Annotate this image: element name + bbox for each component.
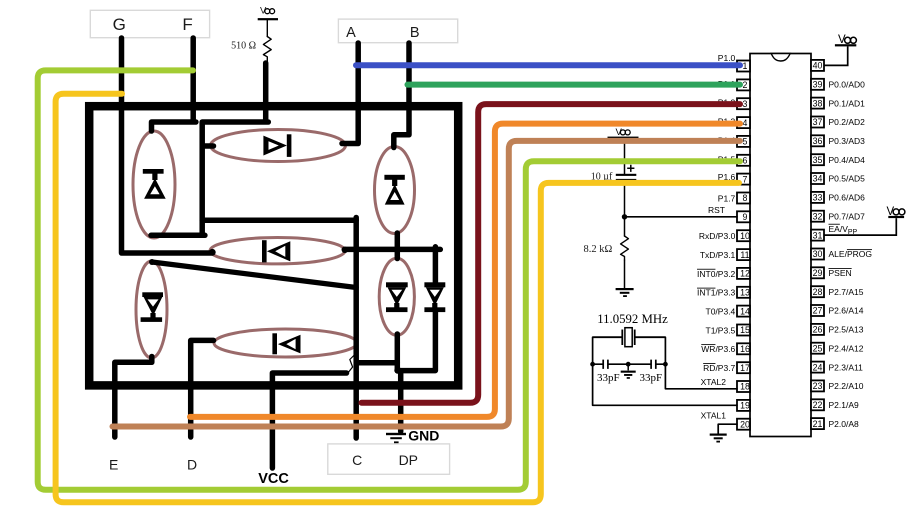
pin 10 box [737, 230, 750, 241]
pin 5 box [737, 136, 750, 147]
svg-text:T0/P3.4: T0/P3.4 [706, 307, 736, 317]
svg-text:GND: GND [408, 427, 439, 443]
svg-text:22: 22 [813, 400, 823, 410]
capacitor C3 10uF polarized [616, 165, 637, 182]
power VCC at pin 31 EA/Vpp [824, 206, 905, 235]
wire segment E bottom to node E [115, 357, 152, 438]
svg-text:P0.3/AD3: P0.3/AD3 [829, 136, 866, 146]
svg-text:P0.1/AD1: P0.1/AD1 [829, 98, 866, 108]
pin 36 box [811, 135, 824, 146]
LED segment B ellipse [375, 147, 415, 234]
wire rail to segment F bottom [151, 233, 205, 239]
svg-text:24: 24 [813, 362, 823, 372]
pin 22 box [811, 399, 824, 410]
junction RST node [622, 214, 627, 219]
pin 12 box [737, 268, 750, 279]
svg-text:31: 31 [813, 230, 823, 240]
wire blue node A to P1.0 pin 1 [356, 62, 740, 68]
wire segment G right to DP top rail [344, 247, 440, 253]
wire RST node to pin 9 [625, 216, 738, 218]
svg-text:4: 4 [743, 118, 748, 128]
svg-text:P2.1/A9: P2.1/A9 [829, 400, 860, 410]
wire anode rail from resistor R1 into display [202, 63, 268, 235]
svg-text:T1/P3.5: T1/P3.5 [706, 325, 736, 335]
svg-text:P1.7: P1.7 [718, 193, 736, 203]
svg-text:25: 25 [813, 343, 823, 353]
svg-text:23: 23 [813, 381, 823, 391]
wire crystal left to XTAL1 pin 19 [593, 337, 737, 405]
junction segment G right terminal [342, 247, 348, 253]
svg-text:P2.7/A15: P2.7/A15 [829, 287, 864, 297]
svg-text:35: 35 [813, 155, 823, 165]
LED segment A ellipse [211, 130, 346, 162]
node label box A B [338, 19, 457, 43]
svg-text:33: 33 [813, 193, 823, 203]
pin 25 box [811, 343, 824, 354]
svg-text:INT0/P3.2: INT0/P3.2 [697, 269, 736, 279]
pin 6 box [737, 155, 750, 166]
svg-text:38: 38 [813, 98, 823, 108]
pin 7 box [737, 174, 750, 185]
ground symbol between C1 C2 [621, 364, 636, 379]
svg-text:V: V [260, 6, 267, 17]
pin 3 box [737, 98, 750, 109]
pin 24 box [811, 362, 824, 373]
svg-text:D: D [187, 457, 197, 473]
svg-text:A: A [346, 25, 356, 41]
power VCC supply top [258, 6, 278, 21]
svg-text:VCC: VCC [258, 471, 289, 487]
svg-text:19: 19 [740, 401, 750, 411]
power VCC at RST circuit [608, 127, 639, 139]
svg-text:18: 18 [740, 382, 750, 392]
pin 4 box [737, 117, 750, 128]
svg-text:P0.6/AD6: P0.6/AD6 [829, 193, 866, 203]
wire yellow-green node F to P1.5 pin 6 [38, 70, 740, 489]
pin 14 box [737, 306, 750, 317]
wire node F to segment F top [152, 38, 196, 131]
node label box G F [90, 10, 209, 37]
svg-text:10: 10 [740, 231, 750, 241]
svg-text:WR/P3.6: WR/P3.6 [701, 344, 735, 354]
wire VCC column [272, 373, 346, 468]
node label box C DP [328, 444, 450, 474]
LED segment F ellipse [133, 131, 175, 238]
svg-text:INT1/P3.3: INT1/P3.3 [697, 288, 736, 298]
svg-text:P2.0/A8: P2.0/A8 [829, 419, 860, 429]
diode LED D symbol [272, 333, 300, 354]
pin 11 box [737, 249, 750, 260]
pin 29 box [811, 267, 824, 278]
7-segment display U2 outline [89, 106, 458, 385]
pin 40 box [811, 60, 824, 71]
wire node B to segment B top [394, 43, 409, 148]
svg-text:16: 16 [740, 344, 750, 354]
wire segment D left to node D [191, 340, 214, 437]
pin 21 box [811, 418, 824, 429]
svg-text:XTAL2: XTAL2 [701, 377, 727, 387]
microcontroller U1 body (8051) [750, 54, 811, 437]
pin 30 box [811, 249, 824, 260]
svg-text:2: 2 [743, 80, 748, 90]
pin 31 box [811, 230, 824, 241]
svg-text:37: 37 [813, 117, 823, 127]
svg-text:36: 36 [813, 136, 823, 146]
pin 19 box [737, 400, 750, 411]
junction crystal right node [663, 362, 668, 367]
svg-text:C: C [352, 452, 362, 468]
ground symbol at DP [386, 433, 406, 443]
svg-text:14: 14 [740, 306, 750, 316]
wire node A to segment A right [342, 43, 358, 144]
wire yellow node G to P1.6 pin 7 [56, 94, 739, 503]
resistor R2 zigzag 8.2k [621, 236, 629, 260]
svg-text:B: B [410, 25, 420, 41]
pin 23 box [811, 380, 824, 391]
crystal Y1 [593, 328, 666, 347]
pin 13 box [737, 287, 750, 298]
LED segment E ellipse [136, 261, 167, 358]
thin wire segment D right to VCC column [347, 343, 357, 374]
svg-text:34: 34 [813, 174, 823, 184]
pin 39 box [811, 79, 824, 90]
resistor R1 zigzag 510 ohm [263, 37, 271, 64]
wire DP diode bottom to DP column [397, 312, 435, 371]
junction segment E top terminal [149, 259, 155, 265]
capacitor C1 33pF [593, 360, 629, 369]
wire DP diode top stub [433, 247, 439, 283]
wire brown node E to P1.4 pin 5 [113, 141, 741, 427]
svg-text:11: 11 [740, 250, 749, 260]
wire mid column / node C column [353, 218, 359, 439]
svg-text:XTAL1: XTAL1 [701, 411, 727, 421]
svg-text:P2.5/A13: P2.5/A13 [829, 325, 864, 335]
svg-text:3: 3 [743, 99, 748, 109]
svg-text:13: 13 [740, 288, 750, 298]
pin 16 box [737, 343, 750, 354]
pin 34 box [811, 173, 824, 184]
svg-text:17: 17 [740, 363, 750, 373]
svg-text:P2.6/A14: P2.6/A14 [829, 306, 864, 316]
svg-text:F: F [182, 15, 192, 34]
svg-text:V: V [616, 127, 623, 138]
svg-text:11.0592 MHz: 11.0592 MHz [597, 312, 668, 326]
pin 28 box [811, 286, 824, 297]
svg-text:8: 8 [743, 193, 748, 203]
svg-text:33pF: 33pF [597, 372, 620, 384]
pin 15 box [737, 325, 750, 336]
wire crystal right to XTAL2 pin 18 [665, 337, 737, 389]
wire orange node D to P1.3 pin 4 [190, 124, 740, 417]
svg-text:20: 20 [740, 419, 750, 429]
svg-text:40: 40 [813, 61, 823, 71]
pin 8 box [737, 193, 750, 204]
pin 32 box [811, 211, 824, 222]
svg-text:P0.4/AD4: P0.4/AD4 [829, 155, 866, 165]
svg-text:RxD/P3.0: RxD/P3.0 [699, 231, 736, 241]
diode LED B symbol [384, 175, 404, 205]
junction capacitor center node [626, 362, 631, 367]
wire green node B to P1.1 pin 2 [408, 82, 741, 88]
svg-text:12: 12 [740, 269, 750, 279]
pin 33 box [811, 192, 824, 203]
svg-text:7: 7 [743, 174, 748, 184]
wire resistor R2 to ground [624, 260, 626, 288]
svg-text:P2.2/A10: P2.2/A10 [829, 381, 864, 391]
wire node C column to DP column [356, 360, 397, 366]
LED segment D ellipse [214, 329, 357, 357]
svg-text:27: 27 [813, 306, 823, 316]
wire capacitor to RST node [624, 181, 626, 236]
pin 26 box [811, 324, 824, 335]
svg-text:RST: RST [708, 205, 725, 215]
capacitor C2 33pF [628, 360, 665, 369]
pin 35 box [811, 154, 824, 165]
wire rail to segment A left [203, 143, 214, 149]
svg-text:39: 39 [813, 80, 823, 90]
svg-text:P0.7/AD7: P0.7/AD7 [829, 211, 866, 221]
pin 27 box [811, 305, 824, 316]
svg-text:G: G [113, 15, 126, 34]
diode LED C symbol [386, 282, 408, 312]
pin 38 box [811, 98, 824, 109]
wire VCC to capacitor C3 [624, 139, 626, 174]
LED segment G ellipse [210, 238, 345, 264]
wire diagonal segment E top to node C column [152, 262, 356, 288]
svg-text:P1.0: P1.0 [718, 53, 736, 63]
svg-text:P0.2/AD2: P0.2/AD2 [829, 117, 866, 127]
diode LED DP symbol [424, 282, 445, 312]
ground symbol at pin 20 [710, 434, 727, 443]
svg-text:DP: DP [399, 452, 418, 468]
svg-text:PSEN: PSEN [829, 268, 852, 278]
pin 2 box [737, 79, 750, 90]
diode LED E symbol [141, 292, 163, 322]
diode LED F symbol [143, 169, 166, 199]
junction DP column [394, 367, 401, 374]
svg-text:6: 6 [743, 156, 748, 166]
svg-text:26: 26 [813, 325, 823, 335]
svg-text:510 Ω: 510 Ω [231, 41, 256, 52]
LED segment C ellipse [379, 258, 414, 335]
svg-text:21: 21 [813, 419, 823, 429]
wire segment C bottom stub [395, 334, 401, 371]
pin 9 box [737, 211, 750, 222]
svg-text:8.2 kΩ: 8.2 kΩ [583, 244, 612, 255]
junction segment G left terminal [209, 249, 216, 256]
svg-text:P0.0/AD0: P0.0/AD0 [829, 80, 866, 90]
svg-text:29: 29 [813, 268, 823, 278]
svg-text:5: 5 [743, 137, 748, 147]
svg-text:P2.4/A12: P2.4/A12 [829, 343, 864, 353]
diode LED A symbol [263, 134, 291, 157]
wire maroon node C to P1.2 pin 3 [362, 104, 741, 403]
pin 17 box [737, 362, 750, 373]
power VCC at pin 40 [824, 34, 856, 65]
wire node G to segment G left [122, 38, 212, 253]
svg-text:1: 1 [743, 61, 748, 71]
svg-text:33pF: 33pF [640, 372, 663, 384]
junction crystal left node [590, 362, 595, 367]
svg-text:P2.3/A11: P2.3/A11 [829, 362, 864, 372]
ground symbol at R2 [616, 288, 634, 297]
pin 37 box [811, 117, 824, 128]
svg-text:15: 15 [740, 325, 750, 335]
pin 18 box [737, 381, 750, 392]
wire segment B bottom to segment C top [395, 233, 401, 259]
wire pin 20 to ground [718, 424, 737, 433]
svg-text:RD/P3.7: RD/P3.7 [703, 363, 735, 373]
wire VCC to resistor R1 [266, 20, 268, 36]
diode LED G symbol [262, 240, 290, 262]
svg-text:E: E [109, 457, 118, 473]
svg-text:32: 32 [813, 211, 823, 221]
svg-text:TxD/P3.1: TxD/P3.1 [700, 250, 736, 260]
svg-text:28: 28 [813, 287, 823, 297]
wire rail to mid column [202, 217, 356, 223]
svg-text:30: 30 [813, 249, 823, 259]
pin 20 box [737, 419, 750, 430]
svg-text:9: 9 [743, 212, 748, 222]
pin 1 box [737, 61, 750, 72]
svg-text:P0.5/AD5: P0.5/AD5 [829, 174, 866, 184]
svg-text:ALE/PROG: ALE/PROG [829, 249, 872, 259]
wire DP column to ground [398, 371, 404, 432]
